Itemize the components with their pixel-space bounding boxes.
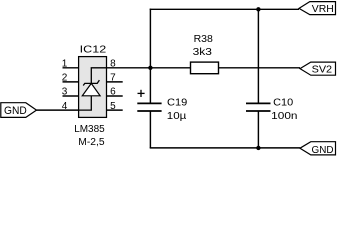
svg-text:8: 8 — [110, 59, 116, 70]
svg-text:3k3: 3k3 — [193, 47, 213, 58]
svg-text:R38: R38 — [194, 34, 214, 45]
svg-text:3: 3 — [62, 87, 68, 98]
svg-text:LM385: LM385 — [74, 124, 105, 135]
svg-text:VRH: VRH — [312, 4, 334, 15]
svg-text:6: 6 — [110, 87, 116, 98]
svg-text:GND: GND — [312, 145, 334, 156]
svg-text:C19: C19 — [167, 97, 188, 108]
svg-text:M-2,5: M-2,5 — [78, 137, 105, 148]
svg-text:100n: 100n — [271, 111, 297, 122]
svg-text:1: 1 — [62, 59, 68, 70]
svg-text:2: 2 — [62, 73, 68, 84]
svg-text:C10: C10 — [273, 97, 293, 108]
svg-text:5: 5 — [110, 101, 116, 112]
svg-text:10µ: 10µ — [167, 111, 187, 122]
svg-text:4: 4 — [62, 101, 68, 112]
svg-text:IC12: IC12 — [80, 44, 107, 55]
svg-text:SV2: SV2 — [312, 65, 333, 76]
svg-text:GND: GND — [4, 105, 27, 117]
svg-text:7: 7 — [110, 73, 116, 84]
